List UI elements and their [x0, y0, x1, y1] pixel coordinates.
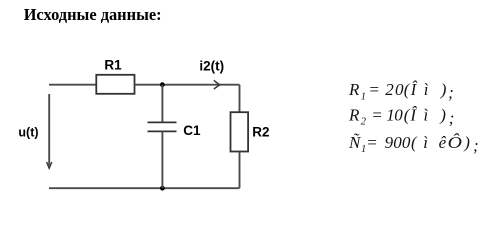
wire top-middle segment R1 to node — [135, 84, 240, 86]
wire capacitor branch upper — [161, 85, 163, 122]
wire below R2 — [239, 152, 241, 189]
source arrow u(t) head — [47, 162, 52, 168]
svg-text:;: ; — [473, 136, 479, 155]
capacitor C1 plates — [148, 122, 177, 131]
source arrow u(t) line — [48, 94, 50, 166]
equation line 3: C1 = 900(мкФ) mojibake — [348, 133, 479, 155]
svg-text:2: 2 — [361, 117, 367, 128]
svg-text:R: R — [348, 105, 360, 124]
svg-text:Ñ: Ñ — [348, 133, 362, 152]
wire capacitor branch lower — [161, 131, 163, 188]
svg-text:Î: Î — [410, 80, 418, 99]
resistor R2 — [231, 112, 249, 151]
node junction bottom (dot) — [160, 186, 165, 191]
svg-text:0: 0 — [395, 80, 404, 99]
resistor R1 — [96, 75, 134, 94]
svg-text:Î: Î — [409, 105, 417, 124]
svg-text:): ) — [463, 133, 470, 152]
svg-text:ì: ì — [424, 80, 429, 99]
svg-text:2: 2 — [385, 80, 394, 99]
svg-text:;: ; — [448, 83, 454, 102]
wire bottom segment — [49, 187, 240, 189]
svg-text:=: = — [366, 133, 377, 152]
svg-text:): ) — [440, 80, 447, 99]
svg-text:ì: ì — [424, 105, 429, 124]
svg-text:(: ( — [411, 133, 418, 152]
svg-text:i2(t): i2(t) — [199, 58, 224, 73]
svg-text:=: = — [368, 80, 379, 99]
wire top-left segment — [49, 84, 96, 86]
svg-text:;: ; — [449, 108, 455, 127]
svg-text:Исходные данные:: Исходные данные: — [24, 5, 162, 24]
svg-text:=: = — [371, 105, 382, 124]
svg-text:C1: C1 — [183, 123, 201, 138]
svg-text:Ô: Ô — [448, 133, 462, 152]
svg-text:900: 900 — [385, 133, 411, 152]
svg-text:ê: ê — [439, 133, 447, 152]
svg-text:u(t): u(t) — [18, 126, 38, 140]
svg-text:R2: R2 — [252, 125, 269, 140]
node junction top (dot) — [160, 82, 165, 87]
svg-text:0: 0 — [394, 105, 403, 124]
svg-text:): ) — [439, 105, 446, 124]
svg-text:R: R — [348, 80, 360, 99]
arrow i2(t) chevron — [214, 80, 220, 89]
svg-text:1: 1 — [361, 92, 366, 103]
equation line 2: R2 = 10(Ом) mojibake — [348, 105, 454, 127]
svg-text:R1: R1 — [104, 57, 122, 72]
svg-text:ì: ì — [423, 133, 428, 152]
equation line 1: R1 = 20(Ом) mojibake — [348, 80, 454, 102]
wire right vertical down to R2 — [239, 85, 241, 112]
